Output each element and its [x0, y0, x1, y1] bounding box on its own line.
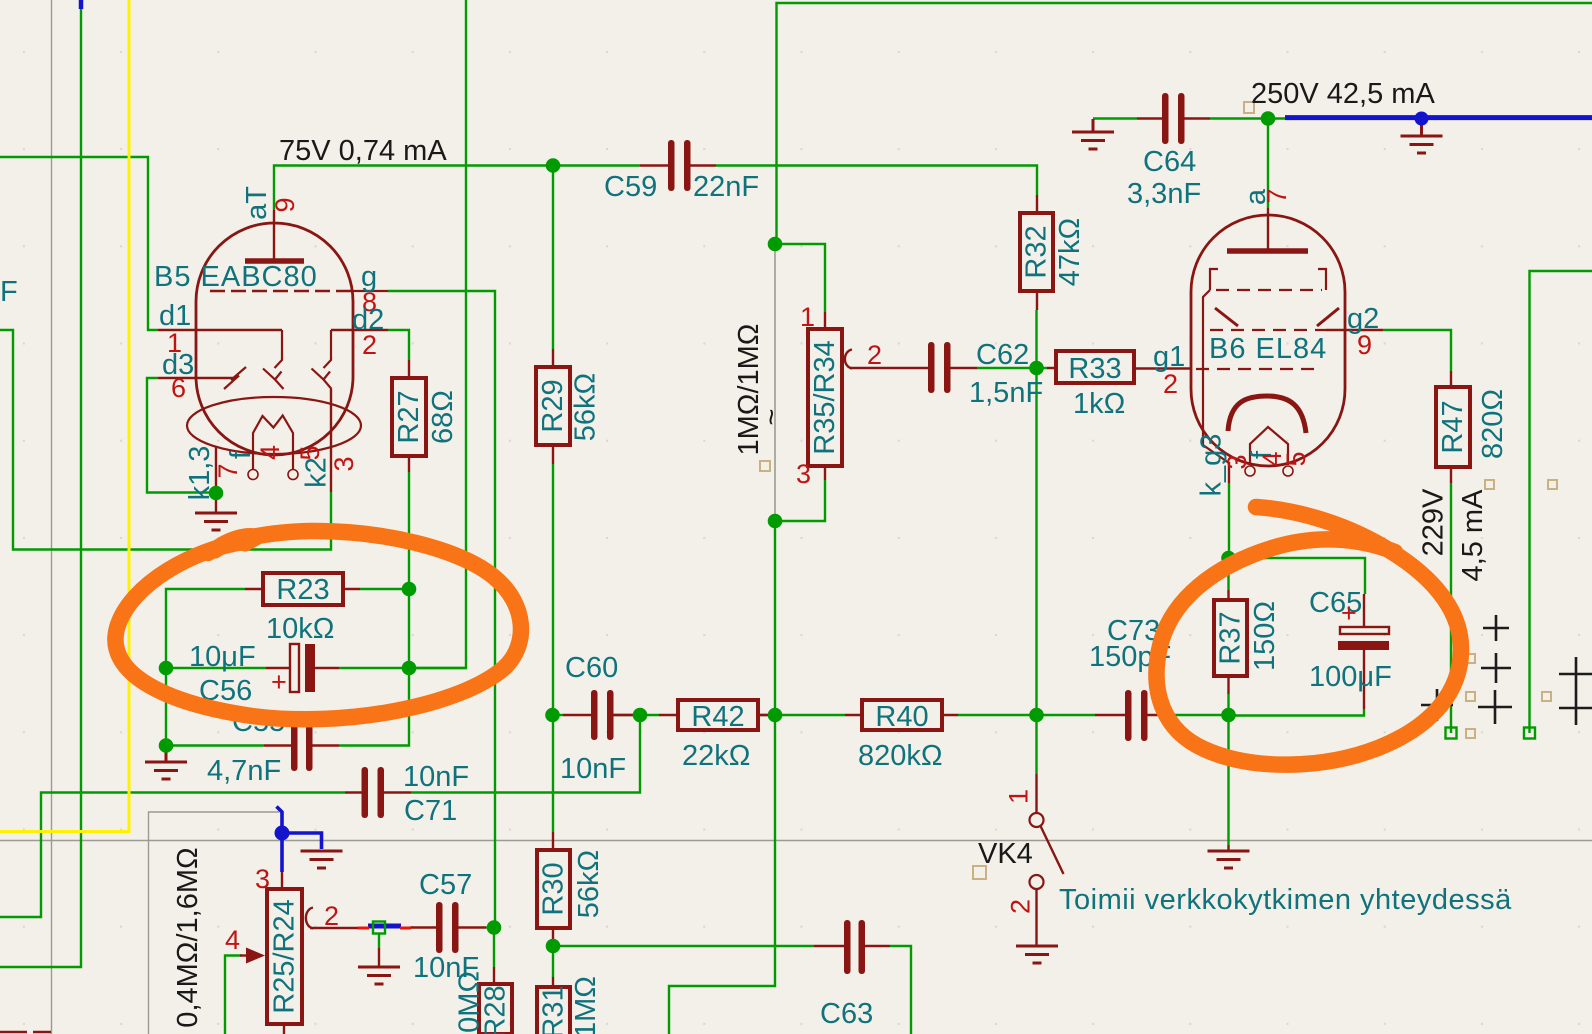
wire: C57 right stub to junction [486, 926, 494, 928]
svg-text:4,5 mA: 4,5 mA [1457, 489, 1489, 582]
tube B5 grid (dashed) [210, 290, 352, 292]
capacitor C63 plates [844, 920, 865, 974]
C57 leads [410, 926, 486, 928]
svg-text:10nF: 10nF [560, 753, 626, 785]
svg-text:R25/R24: R25/R24 [269, 899, 301, 1013]
svg-text:~: ~ [756, 409, 788, 426]
svg-text:4: 4 [225, 925, 240, 955]
C60 leads [563, 714, 640, 716]
potentiometer R35/R34 wiper hook [845, 350, 852, 369]
orange pen start blob left circle [215, 537, 256, 550]
svg-text:VK4: VK4 [978, 838, 1033, 870]
tube B5 grid pin stub [352, 290, 388, 292]
capacitor C62 plates [928, 342, 951, 393]
resistor R28 [479, 984, 512, 1034]
tube B5 cathode oval [187, 397, 361, 454]
wire: y792 line left section [0, 793, 345, 918]
svg-text:22kΩ: 22kΩ [682, 740, 750, 772]
wire: C59 right to R32 top [716, 166, 1037, 196]
EL84 anode stub [1267, 208, 1269, 251]
svg-text:3,3nF: 3,3nF [1127, 178, 1201, 210]
wire end marker below R47 [1446, 728, 1457, 739]
junction dots (green) [546, 158, 561, 173]
svg-text:820kΩ: 820kΩ [858, 740, 943, 772]
svg-text:R31: R31 [538, 985, 570, 1034]
svg-text:10nF: 10nF [403, 761, 469, 793]
svg-text:aT: aT [241, 186, 273, 220]
wire: node column x409 [339, 472, 409, 746]
wire: R32 bottom to node [1035, 310, 1037, 368]
tube B6 g1 dashed grid [1196, 368, 1320, 370]
R27 stubs [408, 360, 410, 472]
resistor R31 [537, 987, 570, 1034]
wire: gray vertical line far left [51, 0, 53, 1034]
R24 pin4 stub [240, 954, 246, 956]
tube B5 anode plate [245, 258, 304, 264]
wire: C56 right lead to node [339, 667, 466, 669]
R24 wiper line [310, 927, 359, 929]
EABC80 d2 pin [331, 329, 388, 331]
ground under 250V bus [1401, 120, 1443, 153]
potentiometer R35/R34 body [808, 329, 842, 466]
EL84 g2 pin stub [1326, 329, 1383, 331]
svg-text:7: 7 [1262, 188, 1292, 203]
svg-text:75V 0,74 mA: 75V 0,74 mA [279, 135, 447, 167]
svg-text:10kΩ: 10kΩ [266, 613, 334, 645]
potentiometer R25/R24 pin4 arrow [246, 948, 265, 964]
corner component stub bottom-left [0, 1031, 51, 1033]
svg-text:10nF: 10nF [413, 952, 479, 984]
svg-text:C62: C62 [976, 339, 1029, 371]
resistor R47 [1436, 387, 1470, 467]
wire: blue tip at top of x81 net [79, 0, 84, 9]
wire: top net to junction x=776 [777, 3, 1592, 244]
svg-text:9: 9 [270, 197, 300, 212]
ground under R37/C65 [1208, 851, 1250, 868]
wire: C63 right corner down [890, 946, 911, 1034]
svg-text:2: 2 [1163, 369, 1178, 399]
tube B6 cathode arc [1228, 396, 1306, 433]
tube B5 heater pin circles [248, 470, 258, 480]
tube B6 heater filament [1250, 427, 1288, 465]
C59 leads [640, 164, 716, 166]
svg-text:f: f [225, 450, 257, 459]
ground at blue net branch [301, 851, 343, 868]
C63 leads [814, 945, 890, 947]
wire: R29 top lead [552, 166, 554, 350]
svg-text:3: 3 [329, 456, 359, 471]
C73 leads [1095, 714, 1171, 716]
wire: junction to R34 pin1 [775, 244, 825, 312]
wire: blue net at R24 pin3 [277, 807, 283, 873]
resistor R29 [536, 367, 570, 445]
wire: blue branch to ground [282, 833, 322, 849]
resistor R42 [678, 700, 758, 730]
svg-text:820Ω: 820Ω [1477, 389, 1509, 459]
wire: R23/C56/C55 left column [166, 589, 264, 746]
resistor R40 [862, 700, 942, 730]
svg-text:B6 EL84: B6 EL84 [1209, 333, 1327, 365]
wire: EL84 anode lead [1267, 119, 1269, 209]
EL84 cathode pin stub [1228, 462, 1230, 483]
svg-text:10μF: 10μF [189, 641, 256, 673]
svg-text:9: 9 [1357, 330, 1372, 360]
tube B5 EABC80 envelope [196, 223, 353, 455]
svg-text:1MΩ: 1MΩ [570, 976, 602, 1034]
R28 stub [493, 967, 495, 984]
resistor R27 [392, 378, 426, 456]
svg-text:2: 2 [324, 901, 339, 931]
tube B6 EL84 envelope [1191, 215, 1345, 466]
wire: R29 bottom to R30 [552, 464, 554, 832]
capacitor C60 plates [591, 690, 614, 740]
wire: wiper ground stub [378, 933, 380, 948]
small beige anchor squares [1244, 102, 1254, 113]
svg-text:2: 2 [1006, 899, 1036, 914]
capacitor C65 solid plate [1338, 641, 1389, 650]
svg-text:68Ω: 68Ω [427, 390, 459, 444]
orange hand-drawn circle around R37/C65 [1157, 507, 1462, 765]
wire: blue bus 250V to right edge [1285, 115, 1592, 120]
wire: long vertical net x=466 to C56 right node [409, 0, 466, 668]
R42 leads [659, 714, 775, 716]
wire end marker at R24 wiper [373, 922, 385, 934]
wire: anode aT to C59 left [274, 166, 640, 211]
svg-text:B5 EABC80: B5 EABC80 [154, 261, 318, 293]
wire: EL84 cathode down to node [1228, 483, 1230, 558]
tube B6 beam plates [1215, 308, 1339, 326]
wire: node to R37 top [1227, 558, 1229, 590]
wire: C62 right to node [977, 367, 1037, 369]
svg-text:+: + [271, 667, 287, 697]
ground left of C64 [1072, 119, 1114, 149]
svg-text:C57: C57 [419, 869, 472, 901]
svg-text:4,7nF: 4,7nF [207, 755, 281, 787]
junction dots (blue) [275, 112, 1429, 841]
wire: junction to R40 [775, 714, 845, 716]
capacitor C56 solid plate [305, 644, 315, 692]
wire: net to EABC80 d1 from left [0, 157, 158, 330]
svg-text:150Ω: 150Ω [1249, 601, 1281, 671]
capacitor C59 plates [668, 140, 691, 191]
C64 leads [1137, 117, 1210, 119]
svg-text:6: 6 [171, 373, 186, 403]
svg-text:R47: R47 [1437, 400, 1469, 453]
wire: EL84 g2 to R47 [1383, 330, 1451, 371]
wire: R47 bottom dangling [1450, 483, 1452, 733]
svg-text:F: F [0, 276, 18, 308]
svg-text:Toimii verkkokytkimen yhteydes: Toimii verkkokytkimen yhteydessä [1059, 884, 1512, 916]
svg-text:2: 2 [362, 330, 377, 360]
wire: 250V node under bus [1268, 117, 1592, 119]
wire: R37 bottom to ground node [1227, 694, 1229, 845]
svg-text:R33: R33 [1068, 353, 1121, 385]
wire: EABC80 d3 loop to cathode junction [147, 378, 216, 493]
wire: EABC80 d2 to R27 top [388, 330, 409, 360]
C56 leads [266, 667, 339, 669]
C71 leads [345, 791, 411, 793]
wire: cathode node to C65 top [1229, 558, 1366, 594]
potentiometer R25/R24 body [267, 889, 302, 1024]
svg-text:R29: R29 [537, 379, 569, 432]
C55 leads [264, 744, 339, 746]
VK4 pin1 lead [1035, 774, 1037, 813]
resistor R32 [1020, 213, 1053, 291]
wire: C56 left lead [166, 667, 266, 669]
wire: right edge net to dangling end [1530, 271, 1592, 733]
svg-text:56kΩ: 56kΩ [573, 850, 605, 918]
svg-text:1,5nF: 1,5nF [969, 377, 1043, 409]
svg-text:R27: R27 [393, 390, 425, 443]
C62 right lead [951, 367, 978, 369]
wire: C60 right to R42 [614, 714, 659, 716]
capacitor C71 plates [362, 767, 385, 818]
capacitor C65 outline plate [1340, 627, 1389, 634]
R24 pin3 stub [281, 872, 283, 889]
wire: junction x775 down to corner and R28 area [669, 521, 775, 1034]
wire: bright red segments at R24 wiper net [358, 927, 411, 930]
svg-text:100μF: 100μF [1309, 661, 1392, 693]
EABC80 k2 pin [330, 389, 332, 492]
svg-text:R35/R34: R35/R34 [809, 340, 841, 454]
svg-text:R30: R30 [538, 862, 570, 915]
wire: R25 pin4 feed [225, 956, 242, 1034]
svg-text:1: 1 [800, 302, 815, 332]
svg-text:229V: 229V [1418, 488, 1450, 556]
svg-text:R32: R32 [1021, 225, 1053, 278]
wire: EABC80 grid g to C57 junction [388, 291, 495, 927]
wire: node to C63 [553, 945, 814, 947]
svg-text:7: 7 [213, 463, 243, 478]
tube B5 heater filament [253, 416, 293, 470]
svg-text:250V 42,5 mA: 250V 42,5 mA [1251, 78, 1435, 110]
wire: C60 junction down to y792 bus [411, 715, 640, 793]
R34 pin stubs [824, 312, 826, 480]
R24 bottom stub [283, 1024, 285, 1034]
R31 stub [552, 977, 554, 987]
capacitor C56 outline plate [290, 644, 299, 692]
svg-text:1: 1 [1004, 789, 1034, 804]
svg-text:47kΩ: 47kΩ [1054, 218, 1086, 286]
wire: blue overlay segment near C57 [368, 924, 401, 929]
wire: R23 right to node [360, 588, 409, 590]
svg-text:4: 4 [255, 445, 285, 460]
capacitor C55 plates [291, 720, 313, 771]
EABC80 k1 pin [215, 446, 217, 512]
svg-text:C64: C64 [1143, 146, 1196, 178]
R37 ground stub [1227, 845, 1229, 850]
VK4 blade [1041, 826, 1064, 874]
wire: C60 left junction stub [553, 714, 564, 716]
svg-text:C59: C59 [604, 171, 657, 203]
wire: R33 left stub [1037, 367, 1048, 369]
resistor R23 [263, 573, 343, 605]
wire: C64 right to junction [1210, 117, 1268, 119]
wire: R30 bottom node to R31 [552, 941, 554, 977]
wire: C73 right to R37 node [1171, 714, 1229, 716]
svg-text:56kΩ: 56kΩ [570, 373, 602, 441]
R30 stubs [552, 832, 554, 941]
potentiometer R25/R24 wiper hook [306, 908, 313, 929]
R23 leads [245, 588, 360, 590]
svg-text:3: 3 [255, 864, 270, 894]
EABC80 d1 pin [158, 329, 282, 331]
wire: gray page divider horizontal [0, 840, 1592, 842]
svg-text:C71: C71 [404, 795, 457, 827]
R32 stubs [1036, 195, 1038, 310]
wire end marker right net [1524, 728, 1535, 739]
wire: long vertical net x=81 [0, 0, 81, 967]
svg-text:C63: C63 [820, 998, 873, 1030]
wiper ground stub red [378, 948, 380, 966]
svg-text:1kΩ: 1kΩ [1073, 388, 1125, 420]
wire: junction to C73 [1037, 714, 1096, 716]
C65 top lead [1363, 594, 1365, 627]
resistor R30 [537, 850, 570, 928]
wire: C65 bottom to node [1229, 709, 1365, 716]
svg-text:2: 2 [867, 340, 882, 370]
svg-text:R40: R40 [875, 701, 928, 733]
wire: junction to R28 [493, 928, 495, 968]
R37 stubs [1227, 590, 1229, 694]
capacitor C64 plates [1162, 93, 1185, 144]
wire: R40 right to junction [958, 714, 1037, 716]
R29 stubs [552, 349, 554, 464]
capacitor C73 plates [1125, 690, 1148, 741]
ground under VK4 [1016, 946, 1058, 963]
ground at C55 [145, 745, 187, 779]
svg-text:R23: R23 [276, 574, 329, 606]
wire: yellow net vertical left [0, 0, 129, 832]
orange hand-drawn circle around R23/C56 [115, 531, 521, 719]
svg-text:k2: k2 [301, 457, 333, 488]
svg-text:C60: C60 [565, 652, 618, 684]
svg-text:1MΩ/1MΩ: 1MΩ/1MΩ [733, 324, 765, 456]
svg-text:R37: R37 [1215, 611, 1247, 664]
svg-text:+: + [1341, 598, 1357, 628]
wire: R42 right to junction [758, 714, 775, 716]
tube B6 g3 internal to cathode [1203, 290, 1229, 463]
svg-text:3: 3 [796, 459, 811, 489]
black cross marks right side [1421, 689, 1453, 721]
R40 leads [845, 714, 958, 716]
svg-text:k1,3: k1,3 [184, 446, 216, 501]
R34 wiper line to C62 [850, 367, 928, 369]
C65 bottom lead [1363, 650, 1365, 709]
svg-text:0,4MΩ/1,6MΩ: 0,4MΩ/1,6MΩ [172, 847, 204, 1027]
tube B6 g3 brackets [1210, 269, 1326, 290]
wire: left L-net to k2 of B5 [0, 330, 331, 550]
wire: gray segment node between R34 and junctions [774, 244, 776, 521]
tube B5 diode d1 internals [263, 330, 284, 389]
switch VK4 contacts [1030, 813, 1044, 827]
resistor R33 [1056, 351, 1134, 383]
svg-text:22nF: 22nF [693, 171, 759, 203]
tube B6 g3 dashed grid [1216, 289, 1322, 291]
wire: R34 pin3 to junction [775, 480, 825, 521]
VK4 pin2 lead [1035, 889, 1037, 945]
wire: C64 ground link [1093, 117, 1137, 119]
EABC80 d3 pin [158, 377, 233, 379]
tube B5 diode d2 internals [312, 330, 332, 389]
tube B6 g2 dashed grid [1210, 329, 1326, 331]
svg-text:5: 5 [1281, 451, 1311, 466]
ground at R24 wiper / C57 [358, 967, 400, 984]
svg-text:R42: R42 [691, 701, 744, 733]
ground at B5 cathode k1 [195, 513, 237, 530]
R33 leads [1047, 367, 1191, 370]
capacitor C57 plates [436, 902, 459, 953]
EABC80 aT pin [273, 210, 275, 261]
wire: node column x1036 to VK4 [1035, 368, 1037, 774]
sheet box corner bottom-left [149, 812, 280, 1034]
tube B6 anode plate [1227, 248, 1308, 254]
tube B5 diode d3 internals [224, 367, 246, 389]
resistor R37 [1214, 600, 1247, 676]
tube B6 heater pin circles [1245, 466, 1255, 476]
R47 stubs [1450, 371, 1452, 483]
